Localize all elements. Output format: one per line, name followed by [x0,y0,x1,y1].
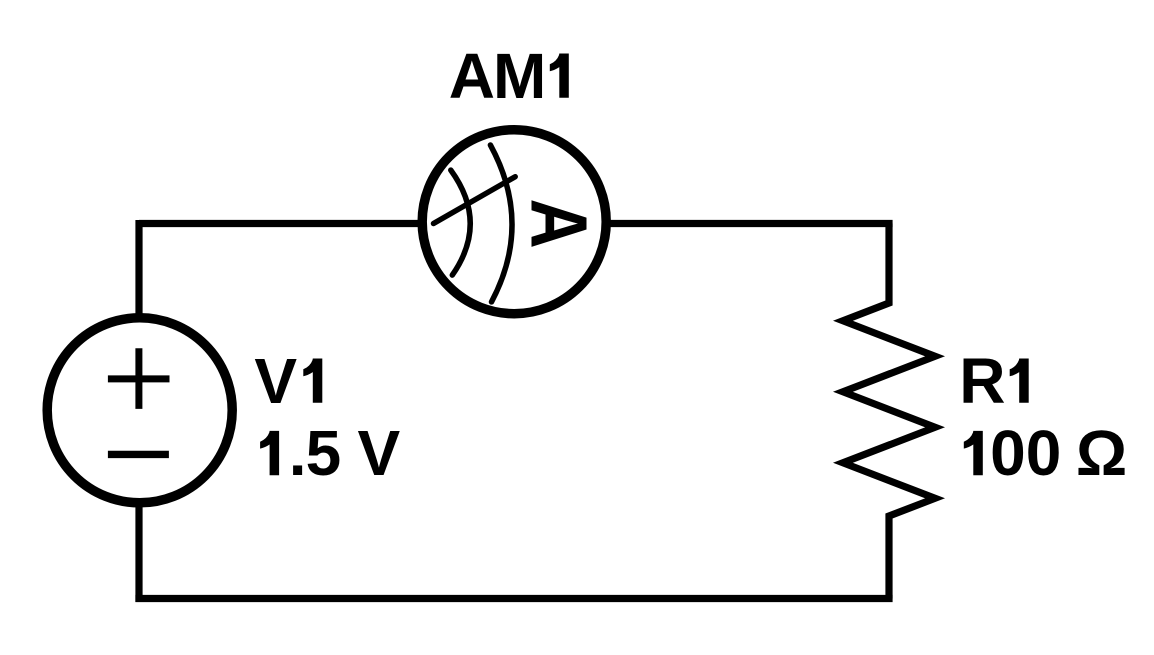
resistor R1 zigzag with leads [843,224,935,599]
wire: left vertical through V1 [135,220,142,602]
svg-text:AM: AM [449,40,545,112]
svg-text:00: 00 [990,417,1061,489]
svg-text:A: A [515,199,605,249]
voltage source V1 circle [47,318,232,503]
wire: top from V1 top-left corner to resistor top-right corner [139,220,893,227]
svg-text:R: R [959,345,1005,417]
V1 minus sign [108,451,169,458]
V1 plus sign [108,348,170,409]
ammeter inner scale arc [451,170,470,275]
svg-text:V: V [254,345,297,417]
svg-text:Ω: Ω [1076,417,1127,489]
label 1.5 V [260,431,279,475]
label 100 ohm [964,431,983,475]
ammeter needle [434,177,516,224]
wire: bottom [135,595,892,602]
ammeter outer scale arc [490,145,512,302]
ammeter AM1 circle [422,130,606,314]
svg-text:.5 V: .5 V [289,417,401,489]
